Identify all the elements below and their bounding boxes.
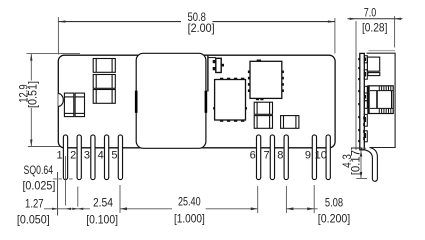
svg-text:SQ0.64: SQ0.64 bbox=[24, 163, 54, 177]
svg-text:[1.000]: [1.000] bbox=[174, 212, 205, 226]
svg-text:[0.28]: [0.28] bbox=[362, 20, 388, 34]
svg-text:10: 10 bbox=[315, 149, 327, 161]
svg-text:[0.025]: [0.025] bbox=[22, 179, 55, 193]
svg-text:[0.17]: [0.17] bbox=[348, 147, 362, 176]
svg-text:1.27: 1.27 bbox=[25, 196, 44, 210]
svg-text:[0.050]: [0.050] bbox=[17, 212, 50, 226]
svg-text:5: 5 bbox=[111, 149, 117, 161]
svg-text:7: 7 bbox=[263, 149, 269, 161]
svg-text:9: 9 bbox=[305, 149, 311, 161]
svg-text:2: 2 bbox=[70, 149, 76, 161]
svg-text:3: 3 bbox=[84, 149, 90, 161]
svg-text:[0.51]: [0.51] bbox=[25, 81, 39, 108]
svg-text:[2.00]: [2.00] bbox=[188, 21, 215, 35]
svg-text:6: 6 bbox=[250, 149, 256, 161]
svg-text:[0.100]: [0.100] bbox=[86, 213, 118, 227]
svg-text:4: 4 bbox=[98, 149, 104, 161]
svg-text:5.08: 5.08 bbox=[325, 196, 344, 210]
svg-text:7.0: 7.0 bbox=[364, 6, 377, 20]
svg-text:[0.200]: [0.200] bbox=[318, 212, 351, 226]
svg-text:2.54: 2.54 bbox=[93, 195, 113, 209]
svg-text:8: 8 bbox=[277, 149, 283, 161]
svg-text:1: 1 bbox=[56, 149, 62, 161]
svg-text:25.40: 25.40 bbox=[178, 195, 201, 209]
